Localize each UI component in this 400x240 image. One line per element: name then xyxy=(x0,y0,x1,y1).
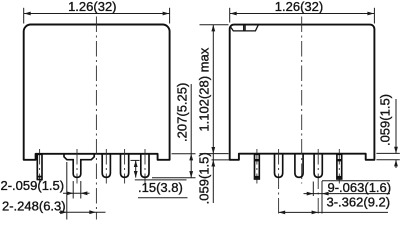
svg-text:1.102(28) max: 1.102(28) max xyxy=(196,47,211,131)
svg-text:9-.063(1.6): 9-.063(1.6) xyxy=(328,180,392,195)
svg-text:2-.248(6.3): 2-.248(6.3) xyxy=(2,198,66,213)
svg-text:.059(1.5): .059(1.5) xyxy=(197,152,212,204)
svg-text:.059(1.5): .059(1.5) xyxy=(378,94,393,146)
svg-text:1.26(32): 1.26(32) xyxy=(275,0,323,14)
svg-text:.207(5.25): .207(5.25) xyxy=(174,83,189,142)
svg-text:.15(3.8): .15(3.8) xyxy=(138,180,183,195)
svg-text:3-.362(9.2): 3-.362(9.2) xyxy=(327,194,391,209)
svg-text:2-.059(1.5): 2-.059(1.5) xyxy=(1,178,65,193)
svg-text:1.26(32): 1.26(32) xyxy=(68,0,116,14)
